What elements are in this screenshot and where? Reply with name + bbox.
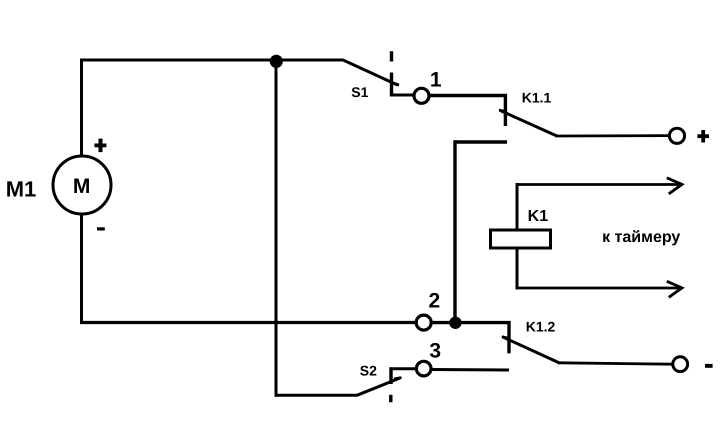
wire bottom to switch S2 — [275, 394, 358, 397]
relay contact K1.1 — [499, 94, 558, 136]
motor M1 — [53, 156, 111, 214]
svg-text:K1.2: K1.2 — [526, 318, 556, 334]
terminal plus circle — [669, 128, 684, 143]
svg-text:S2: S2 — [360, 363, 377, 379]
svg-text:к таймеру: к таймеру — [602, 229, 680, 246]
wire coil bottom to timer arrow — [516, 281, 683, 297]
wire K1.2 to minus terminal — [558, 363, 673, 364]
wire motor top vertical — [80, 60, 83, 156]
relay contact K1.2 — [502, 321, 560, 363]
wire top horizontal — [80, 59, 344, 62]
svg-text:3: 3 — [429, 340, 441, 363]
wire middle vertical — [275, 61, 278, 397]
wire from contact K1.1 down to node 2 — [455, 140, 507, 322]
svg-text:S1: S1 — [351, 84, 368, 100]
wire K1.1 to plus terminal — [556, 134, 670, 137]
terminal minus circle — [673, 357, 688, 372]
wire node2 to K1.2 — [431, 321, 511, 324]
minus sign at motor — [97, 227, 105, 230]
wire node1 to K1.1 — [429, 94, 507, 97]
wire motor bottom vertical — [80, 214, 83, 324]
switch S1 — [343, 51, 414, 96]
label minus — [705, 364, 713, 368]
terminal node 3 — [416, 361, 431, 376]
svg-text:M1: M1 — [6, 177, 37, 202]
relay coil K1 — [491, 183, 551, 290]
wire node3 right — [431, 368, 509, 372]
plus sign at motor — [94, 139, 106, 153]
terminal node 2 — [416, 315, 431, 330]
terminal node 1 — [414, 88, 429, 103]
wire bottom horizontal to node 2 — [80, 321, 417, 324]
svg-text:M: M — [73, 175, 91, 198]
svg-text:K1.1: K1.1 — [522, 89, 552, 105]
junction node top — [270, 55, 283, 68]
label plus — [697, 130, 709, 143]
svg-text:2: 2 — [428, 290, 440, 313]
svg-text:K1: K1 — [528, 208, 549, 225]
junction node 2 dot — [449, 317, 461, 329]
svg-text:1: 1 — [430, 69, 442, 92]
switch S2 — [357, 367, 417, 402]
wire coil top to timer arrow — [516, 178, 683, 194]
